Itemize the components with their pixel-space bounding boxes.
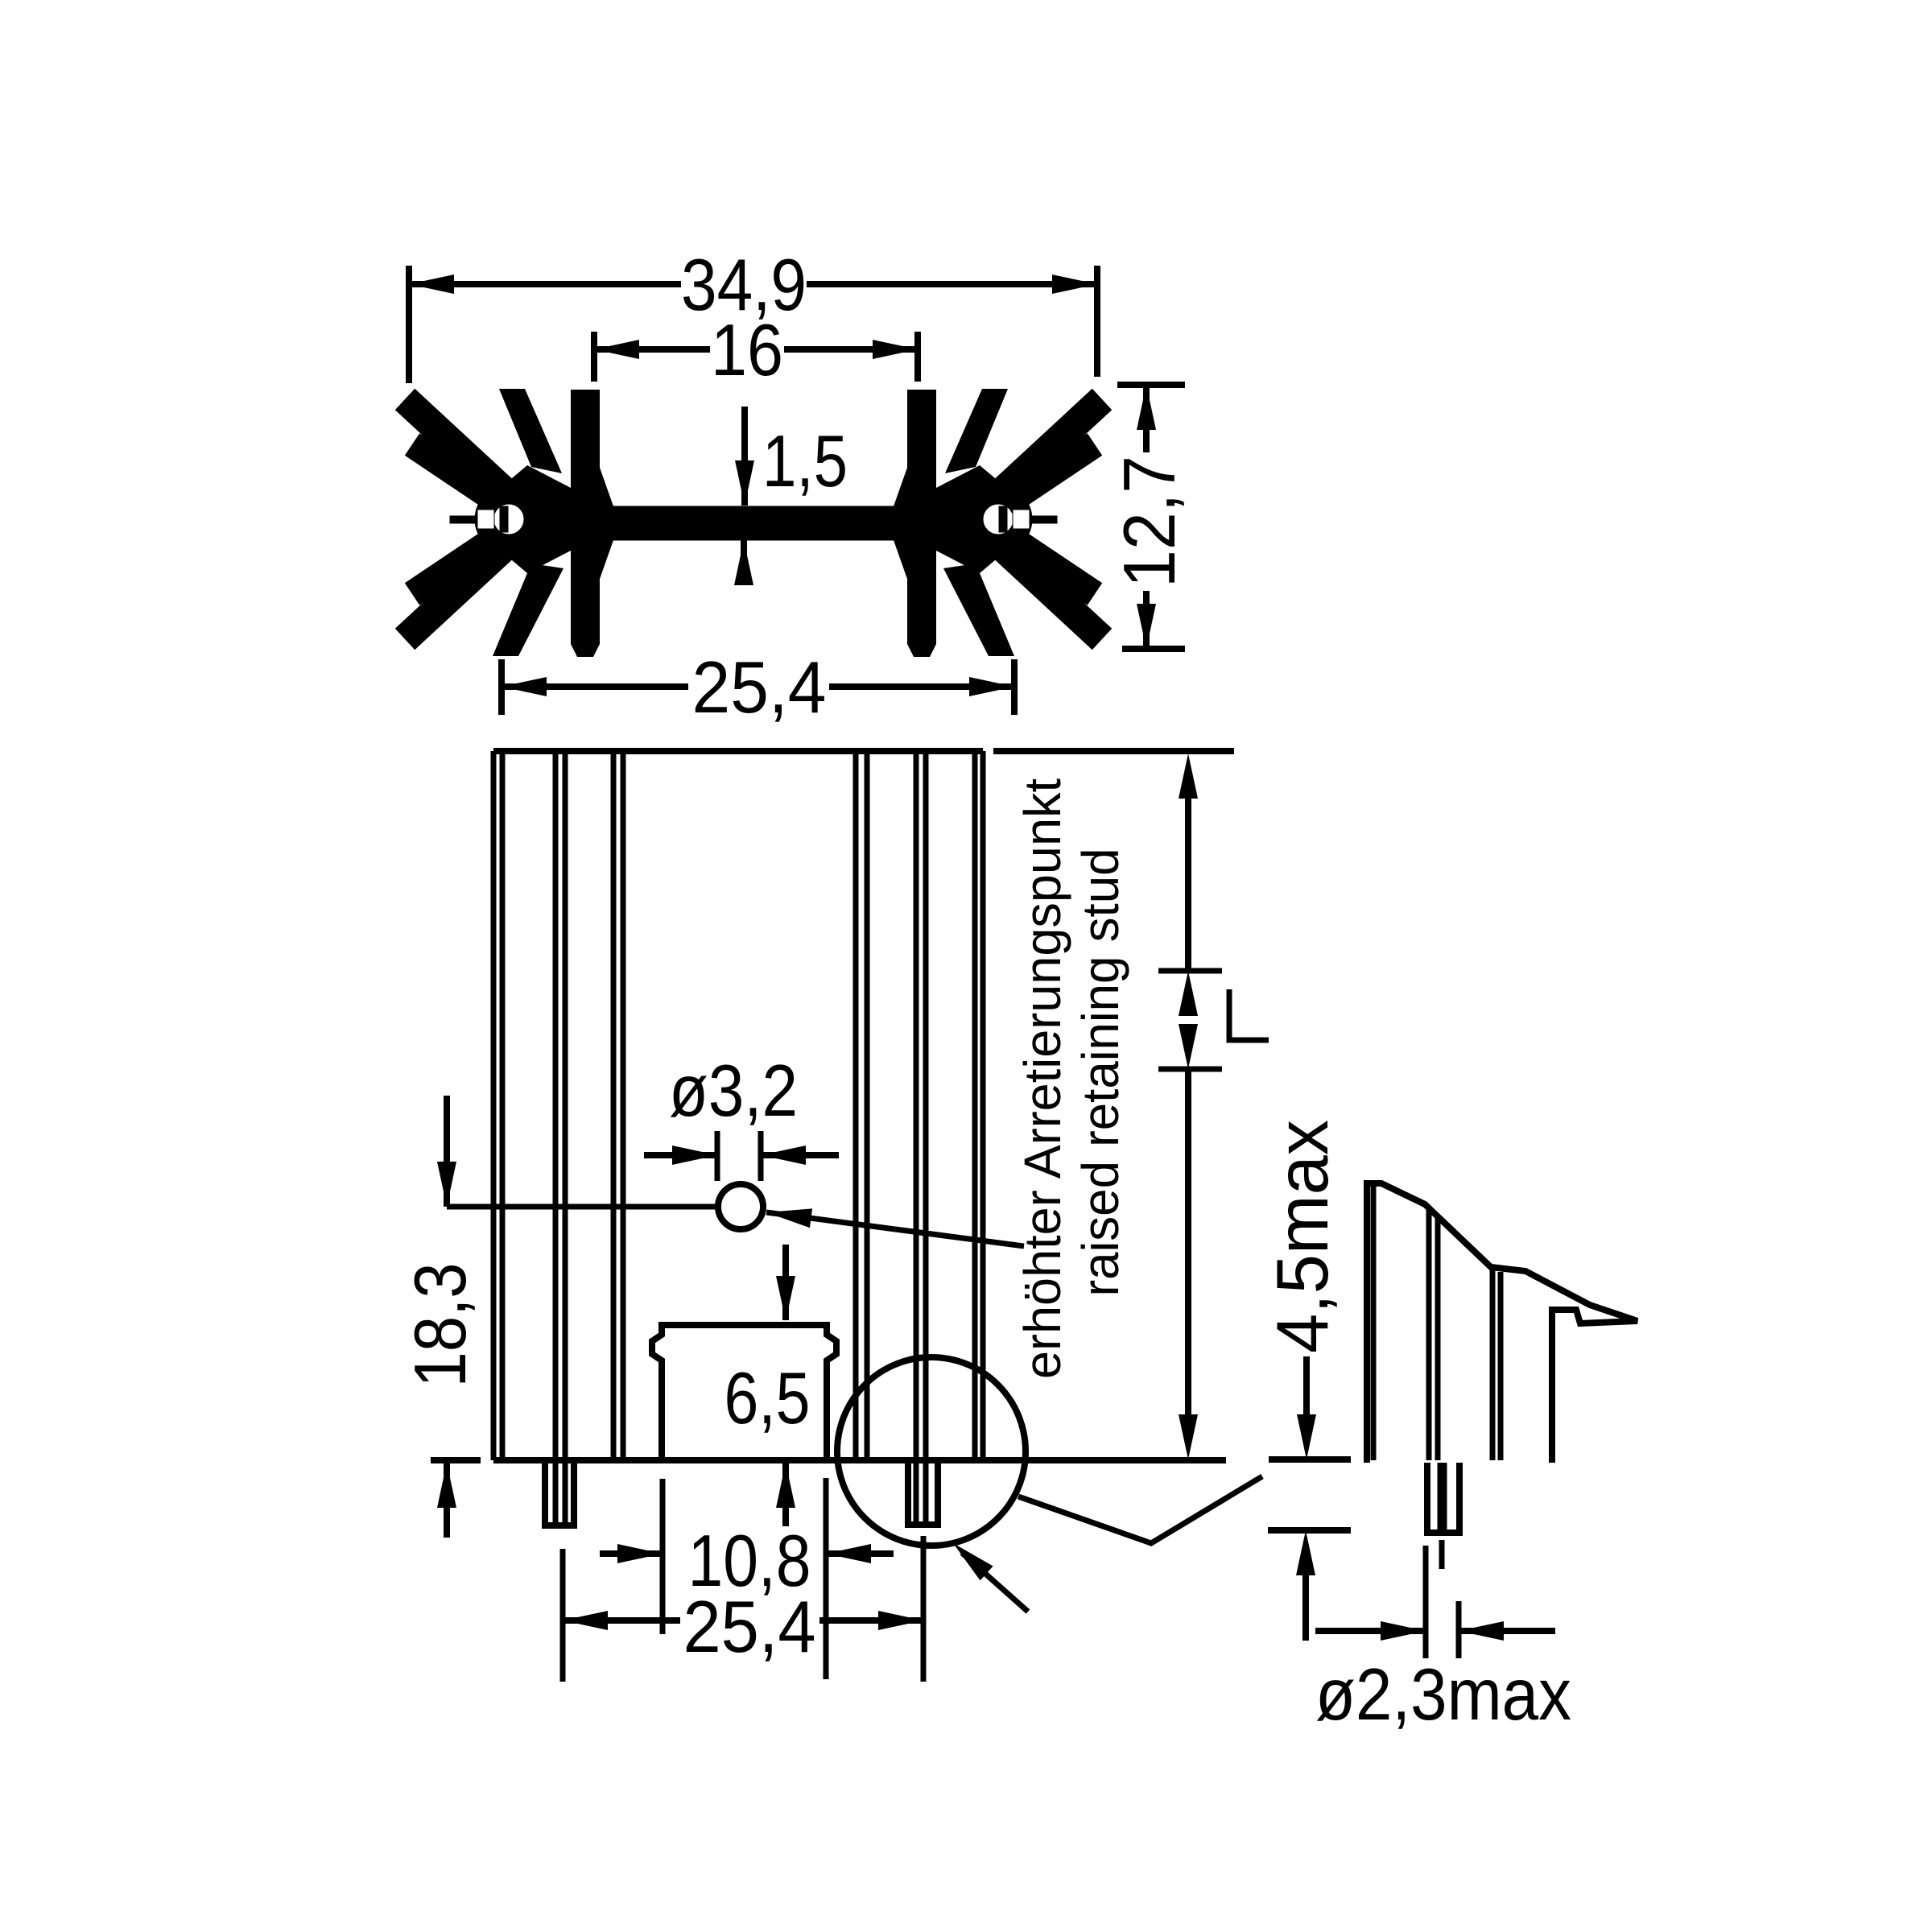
svg-text:18,3: 18,3 [400, 1263, 481, 1388]
svg-text:4,5max: 4,5max [1262, 1120, 1344, 1353]
svg-text:16: 16 [711, 310, 783, 391]
svg-text:25,4: 25,4 [683, 1587, 816, 1668]
svg-text:12,7: 12,7 [1109, 456, 1191, 588]
svg-text:1,5: 1,5 [762, 421, 848, 502]
svg-text:raised retaining stud: raised retaining stud [1071, 848, 1129, 1297]
svg-text:ø3,2: ø3,2 [669, 1051, 798, 1132]
svg-text:ø2,3max: ø2,3max [1315, 1654, 1571, 1736]
svg-text:erhöhter Arretierungspunkt: erhöhter Arretierungspunkt [1013, 778, 1071, 1379]
svg-text:25,4: 25,4 [692, 647, 827, 729]
svg-text:6,5: 6,5 [724, 1358, 811, 1439]
